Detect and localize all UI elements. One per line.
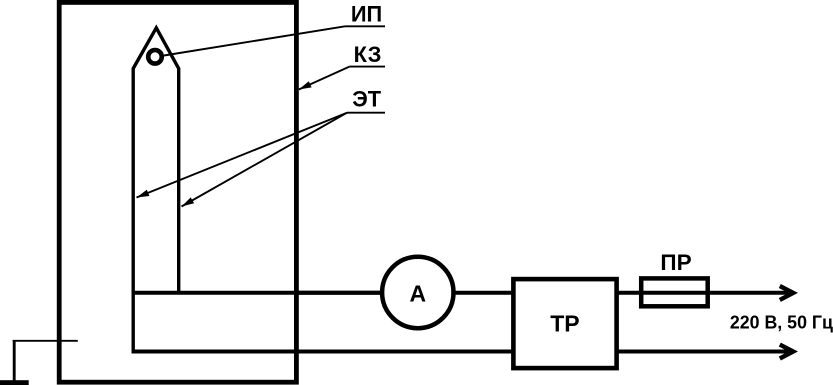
- svg-text:КЗ: КЗ: [354, 42, 382, 67]
- svg-text:ИП: ИП: [351, 1, 382, 26]
- svg-text:ЭТ: ЭТ: [352, 87, 382, 112]
- svg-text:А: А: [409, 280, 426, 306]
- svg-text:ТР: ТР: [550, 311, 579, 337]
- svg-text:ПР: ПР: [660, 250, 691, 275]
- svg-text:220 В, 50 Гц: 220 В, 50 Гц: [730, 312, 833, 332]
